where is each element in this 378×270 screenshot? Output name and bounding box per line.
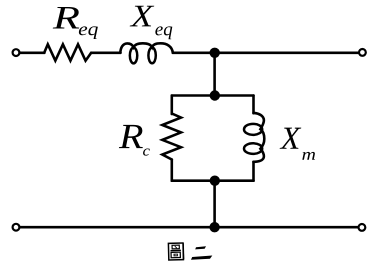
inductor X_eq loop 2 bbox=[148, 48, 155, 64]
inductor X_eq (coil humps) bbox=[120, 43, 173, 53]
caption glyph: 圖 bottom inner mark bbox=[174, 254, 177, 256]
resistor R_eq bbox=[44, 44, 91, 60]
wire: top-left terminal to R_eq bbox=[20, 51, 45, 54]
caption glyph: 圖 bottom box bbox=[171, 252, 180, 258]
node D (junction dot on bottom rail) bbox=[209, 222, 219, 232]
caption glyph: 二 bottom stroke bbox=[191, 256, 212, 260]
label X_eq bbox=[130, 6, 155, 27]
wire: bottom rail bbox=[20, 226, 359, 229]
terminal T1 (top-left open circle) bbox=[13, 49, 20, 56]
label R_c bbox=[119, 125, 143, 148]
label X_m bbox=[280, 128, 302, 149]
wire: box bottom down to bottom rail bbox=[213, 181, 216, 228]
inductor X_m loop 1 bbox=[244, 124, 262, 135]
wire: shunt box bottom rail bbox=[172, 179, 254, 182]
label R_eq bbox=[53, 7, 79, 29]
node A (junction dot on top rail) bbox=[210, 48, 220, 58]
wire: X_eq to top-right terminal bbox=[173, 51, 359, 54]
wire: X_m to box bottom bbox=[252, 162, 255, 181]
node C (junction dot on box bottom rail) bbox=[210, 176, 220, 186]
caption glyph: 圖 right edge emphasis bbox=[182, 243, 184, 259]
wire: top node down to shunt box bbox=[213, 53, 216, 96]
caption glyph: 圖 middle bar bbox=[170, 249, 180, 251]
wire: shunt box top rail bbox=[172, 94, 254, 97]
wire: box top to X_m bbox=[252, 96, 255, 114]
wire: R_c to box bottom bbox=[171, 160, 174, 181]
resistor R_c bbox=[162, 114, 181, 160]
caption glyph: 圖 inner top mouth bbox=[172, 245, 179, 249]
terminal T3 (bottom-left open circle) bbox=[13, 224, 20, 231]
caption glyph: 圖 outer box bbox=[168, 243, 183, 260]
terminal T2 (top-right open circle) bbox=[359, 49, 366, 56]
node B (junction dot on box top rail) bbox=[210, 90, 220, 100]
caption glyph: 二 top stroke bbox=[195, 246, 206, 249]
wire: box top to R_c bbox=[171, 96, 174, 115]
caption glyph: 圖 inner top diagonal bbox=[175, 246, 177, 248]
inductor X_m loop 2 bbox=[244, 143, 262, 154]
inductor X_m (coil humps) bbox=[254, 113, 265, 162]
terminal T4 (bottom-right open circle) bbox=[359, 224, 366, 231]
inductor X_eq loop 1 bbox=[130, 48, 137, 64]
wire: R_eq to X_eq bbox=[91, 51, 120, 54]
